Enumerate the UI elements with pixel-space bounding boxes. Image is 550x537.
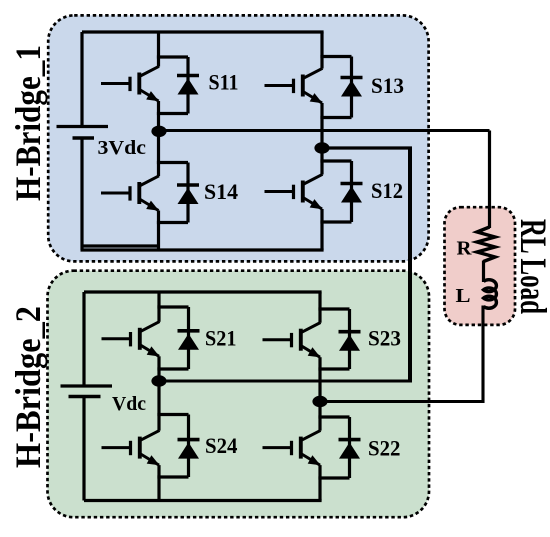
svg-text:S12: S12	[371, 178, 403, 203]
transistor S23	[263, 292, 321, 402]
wire R to L	[482, 261, 485, 283]
svg-text:S24: S24	[205, 433, 238, 458]
transistor S13	[265, 32, 323, 148]
svg-text:S13: S13	[371, 73, 404, 98]
svg-text:RL Load: RL Load	[512, 219, 550, 314]
diode D13	[320, 57, 362, 118]
svg-text:3Vdc: 3Vdc	[98, 137, 147, 159]
node bridge2 B	[312, 396, 327, 407]
node bridge1 B	[314, 142, 329, 153]
diode D21	[157, 307, 199, 369]
bridge 1 negative rail	[81, 246, 324, 250]
transistor S12	[265, 148, 323, 250]
svg-text:H-Bridge_2: H-Bridge_2	[8, 306, 48, 468]
RL Load region box	[445, 207, 516, 325]
bridge 2 positive rail	[84, 290, 322, 293]
transistor S21	[102, 292, 160, 381]
transistor S11	[101, 32, 159, 131]
node bridge1 A	[151, 126, 166, 137]
H-Bridge 1 region box	[48, 15, 428, 261]
bridge 1 positive rail	[82, 30, 324, 33]
wire bridge2 midpoint B to load bottom	[320, 306, 483, 402]
svg-text:H-Bridge_1: H-Bridge_1	[8, 45, 48, 201]
diode D11	[157, 57, 199, 114]
svg-text:S11: S11	[209, 70, 239, 95]
diode D14	[157, 163, 199, 223]
transistor S14	[101, 131, 159, 250]
inductor L	[484, 280, 497, 309]
diode D12	[320, 161, 362, 222]
wire load top vertical	[488, 131, 491, 229]
svg-text:R: R	[457, 238, 473, 260]
svg-text:S22: S22	[368, 436, 401, 461]
svg-text:Vdc: Vdc	[112, 393, 146, 415]
wire bridge2 midpoint A horizontal	[159, 379, 412, 382]
resistor R	[477, 227, 495, 262]
transistor S22	[263, 402, 321, 501]
svg-text:S23: S23	[368, 326, 401, 351]
battery V1 3Vdc	[57, 32, 109, 250]
svg-text:S14: S14	[204, 179, 238, 204]
battery V2 Vdc	[61, 292, 113, 501]
diode D22	[318, 417, 360, 478]
transistor S24	[102, 381, 160, 501]
H-Bridge 2 region box	[48, 271, 430, 518]
svg-text:L: L	[456, 285, 471, 307]
svg-text:S21: S21	[205, 326, 237, 351]
bridge 2 negative rail	[84, 499, 322, 502]
wire bridge1 midpoint A to load top	[159, 129, 490, 132]
diode D23	[318, 309, 360, 369]
wire bridge1 midpoint B horizontal	[322, 146, 412, 149]
wire bridge1 B to bridge2 A vertical	[408, 148, 412, 381]
node bridge2 A	[151, 375, 166, 386]
diode D24	[157, 415, 199, 478]
